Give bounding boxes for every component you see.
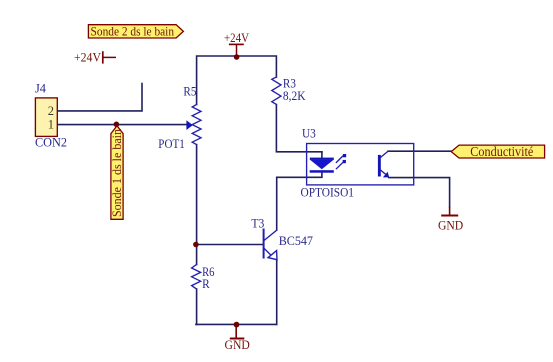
svg-text:Sonde 1 ds le bain: Sonde 1 ds le bain	[109, 129, 124, 217]
svg-text:CON2: CON2	[35, 136, 67, 150]
svg-text:T3: T3	[251, 217, 264, 231]
svg-text:GND: GND	[225, 338, 250, 352]
svg-text:1: 1	[48, 118, 54, 132]
svg-text:Conductivité: Conductivité	[470, 144, 533, 159]
svg-text:8,2K: 8,2K	[283, 89, 306, 103]
svg-text:OPTOISO1: OPTOISO1	[301, 186, 355, 200]
svg-text:U3: U3	[302, 127, 316, 141]
svg-text:R5: R5	[183, 84, 196, 98]
svg-text:J4: J4	[35, 82, 46, 96]
svg-text:POT1: POT1	[158, 137, 185, 151]
svg-text:BC547: BC547	[279, 234, 313, 248]
svg-text:GND: GND	[438, 219, 463, 233]
svg-text:+24V: +24V	[224, 30, 250, 45]
svg-text:2: 2	[48, 104, 54, 118]
svg-text:R: R	[202, 277, 210, 291]
svg-text:Sonde 2 ds le bain: Sonde 2 ds le bain	[91, 24, 175, 39]
svg-text:+24V: +24V	[74, 50, 102, 65]
